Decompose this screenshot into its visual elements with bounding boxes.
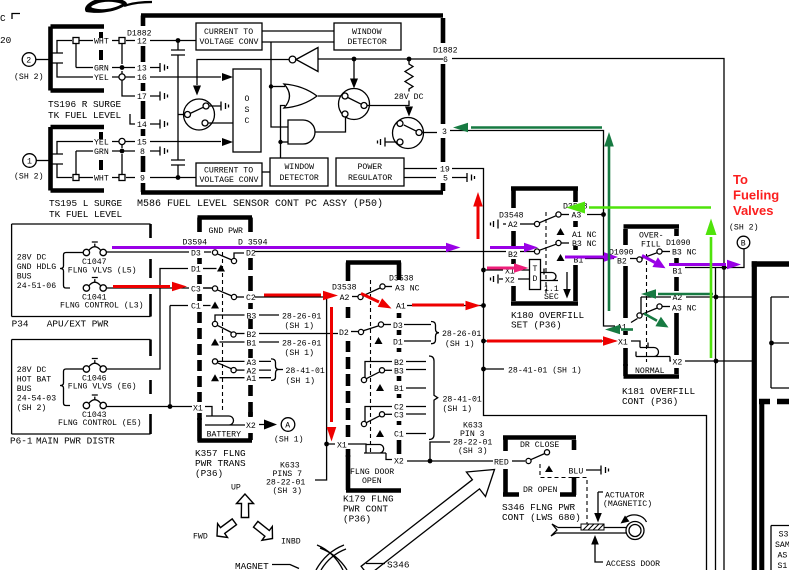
pin 14 with cap termination xyxy=(130,114,168,130)
svg-text:FLNG VLVS (L5): FLNG VLVS (L5) xyxy=(68,265,137,275)
red arrow K357 C2 out xyxy=(264,291,338,301)
vertical from conv1 out to OR gate xyxy=(271,42,288,127)
svg-text:OPEN: OPEN xyxy=(362,477,382,486)
svg-text:P6-1: P6-1 xyxy=(10,436,33,447)
lime arrow to K180 A3 xyxy=(566,202,711,214)
svg-text:B3 NC: B3 NC xyxy=(672,249,697,258)
svg-text:D1: D1 xyxy=(191,266,201,275)
OR gate xyxy=(284,84,317,108)
svg-text:OVER-: OVER- xyxy=(639,232,664,241)
svg-text:C3: C3 xyxy=(191,286,201,295)
red arrow K179 A1 out xyxy=(412,301,481,311)
svg-text:(SH 3): (SH 3) xyxy=(458,446,487,456)
relay K180 armature dashed line xyxy=(545,212,547,296)
dashed mechanical link S346 to actuator xyxy=(540,464,587,527)
red arrow K179 blade transfer xyxy=(361,294,392,309)
svg-text:A2: A2 xyxy=(340,294,350,303)
pin 5 with cap termination xyxy=(404,173,475,184)
svg-text:A3 NC: A3 NC xyxy=(395,285,420,294)
red arrow C1041 to K357 C3 xyxy=(113,282,187,292)
wire C1041 to K357 C3 xyxy=(106,287,211,289)
label S346 bottom xyxy=(366,560,410,570)
circuit breaker C1046 xyxy=(68,359,137,392)
red arrow up to pins 19/5 xyxy=(473,192,483,239)
svg-text:O: O xyxy=(245,95,250,104)
switch S346 FLNG PWR CONT box xyxy=(503,438,576,496)
svg-text:(SH 2): (SH 2) xyxy=(14,172,43,182)
svg-text:S: S xyxy=(245,106,250,115)
contact K180 A2/A3 xyxy=(491,212,582,231)
svg-text:NORMAL: NORMAL xyxy=(635,367,665,376)
svg-text:SET (P36): SET (P36) xyxy=(511,320,562,331)
svg-text:5: 5 xyxy=(443,175,448,184)
svg-text:17: 17 xyxy=(137,93,147,102)
svg-text:D: D xyxy=(533,275,538,284)
svg-text:(P36): (P36) xyxy=(343,514,371,525)
relay K180 OVERFILL SET box xyxy=(511,189,578,304)
svg-text:A2: A2 xyxy=(508,221,518,230)
svg-text:28V DC: 28V DC xyxy=(17,366,47,375)
svg-text:1: 1 xyxy=(27,158,32,167)
contact K181 A2/A3 xyxy=(637,304,697,318)
current to voltage conv box 1 xyxy=(196,23,262,50)
svg-text:12: 12 xyxy=(137,38,147,47)
svg-text:A3: A3 xyxy=(572,212,582,221)
relay K181 OVERFILL CONT box xyxy=(624,227,680,377)
contact K181 B3 NC xyxy=(657,249,697,258)
svg-text:TS196 R SURGE: TS196 R SURGE xyxy=(48,99,122,110)
contact K357 D3/D2 xyxy=(191,250,256,264)
svg-text:D3538: D3538 xyxy=(332,284,357,293)
svg-text:INBD: INBD xyxy=(281,538,301,547)
wire C1047 to K357 D3 xyxy=(106,251,211,253)
dark green arrow up pin3 net xyxy=(604,132,614,311)
svg-text:19: 19 xyxy=(440,166,450,175)
svg-text:(SH 1): (SH 1) xyxy=(443,404,472,414)
svg-text:C1: C1 xyxy=(191,303,201,312)
svg-text:TS195 L SURGE: TS195 L SURGE xyxy=(49,198,123,209)
svg-text:8: 8 xyxy=(140,148,145,157)
svg-text:3: 3 xyxy=(442,128,447,137)
svg-text:TK FUEL LEVEL: TK FUEL LEVEL xyxy=(49,209,123,220)
svg-text:B1: B1 xyxy=(247,340,257,349)
purple arrow K180 B1 to K181 B2 xyxy=(565,252,618,262)
connector TS196 R SURGE TK FUEL LEVEL xyxy=(14,27,122,122)
svg-text:To: To xyxy=(733,172,748,187)
svg-text:VOLTAGE CONV: VOLTAGE CONV xyxy=(200,176,259,185)
contact S346 BLU marker xyxy=(545,466,553,473)
svg-text:A1 NC: A1 NC xyxy=(572,231,597,240)
contact K181 B2 xyxy=(617,253,657,267)
connector D1882 body line TS196 side xyxy=(122,44,135,97)
svg-text:YEL: YEL xyxy=(94,139,109,148)
svg-text:B3: B3 xyxy=(247,312,257,321)
svg-text:C3: C3 xyxy=(394,412,404,421)
svg-text:A: A xyxy=(285,422,290,431)
svg-text:D3: D3 xyxy=(393,322,403,331)
circuit breaker C1043 xyxy=(58,395,142,428)
svg-text:DR CLOSE: DR CLOSE xyxy=(520,441,559,450)
svg-text:D1882: D1882 xyxy=(433,47,458,56)
orientation arrow UP xyxy=(231,484,254,518)
contact K180 B3 NC xyxy=(556,240,597,249)
svg-text:X2: X2 xyxy=(394,458,404,467)
circuit breaker C1041 xyxy=(60,278,144,311)
junction dots on power bus xyxy=(481,268,486,273)
svg-text:REGULATOR: REGULATOR xyxy=(348,174,392,183)
svg-text:P34: P34 xyxy=(12,319,29,330)
orientation arrow INBD xyxy=(254,521,301,546)
svg-text:RED: RED xyxy=(494,459,509,468)
relay K179 armature dashed line xyxy=(370,280,372,455)
svg-text:B1: B1 xyxy=(394,385,404,394)
time delay TD box K180 xyxy=(486,260,541,290)
svg-text:HOT BAT: HOT BAT xyxy=(17,376,51,385)
wire GRN to pin 8 xyxy=(76,147,168,158)
svg-text:GND HDLG: GND HDLG xyxy=(17,263,56,272)
pink arrow to K180 X1 xyxy=(487,263,529,273)
pointer ACTUATOR (MAGNETIC) xyxy=(594,492,652,523)
svg-text:CONT (P36): CONT (P36) xyxy=(622,396,678,407)
dark green arrow K181 A2 in xyxy=(641,289,713,299)
contact K180 B2 xyxy=(508,244,556,260)
wire K181 X2 row xyxy=(673,359,754,368)
junction pin6 net at B1 xyxy=(722,265,727,270)
label K633 PINS 7 xyxy=(266,444,327,496)
svg-text:FLNG DOOR: FLNG DOOR xyxy=(350,468,394,477)
svg-text:28V DC: 28V DC xyxy=(17,254,47,263)
wire inverter input from pin6 line xyxy=(318,58,443,60)
svg-text:AS: AS xyxy=(778,552,788,561)
wire YEL to pin 16 xyxy=(57,63,221,83)
contact K357 B1 xyxy=(211,339,321,359)
time delay arrow 1.1 SEC xyxy=(544,272,571,302)
svg-text:B3: B3 xyxy=(394,368,404,377)
svg-text:14: 14 xyxy=(137,121,147,130)
arrowhead into left switch xyxy=(193,86,201,96)
svg-text:9: 9 xyxy=(140,175,145,184)
label MAGNET xyxy=(235,561,299,570)
wire conv2 to window det2 xyxy=(262,171,270,173)
svg-text:15: 15 xyxy=(137,139,147,148)
wire K181 X1 from power bus xyxy=(484,339,628,348)
wire WHT to pin 12 xyxy=(57,38,196,54)
node bus capacitor chain left xyxy=(171,38,185,180)
relay K357 FLNG PWR TRANS box xyxy=(198,218,253,442)
svg-text:D2: D2 xyxy=(246,250,256,259)
svg-text:20: 20 xyxy=(0,35,12,46)
sheet ref circle 1 xyxy=(23,154,37,168)
wire YEL to pin 15 xyxy=(57,138,221,154)
svg-text:SAM: SAM xyxy=(775,541,789,550)
svg-text:(SH 1): (SH 1) xyxy=(445,339,474,349)
contact K179 C1 xyxy=(376,430,426,440)
relay K179 FLNG PWR CONT box xyxy=(346,263,401,491)
access door drawing xyxy=(551,515,647,540)
probe plates TS195 xyxy=(52,154,63,164)
wire K179 A1 to power bus xyxy=(396,303,484,312)
wire K357 C1 tie down to X1 xyxy=(169,306,171,407)
wire pin3 to K181 A1 xyxy=(450,131,615,327)
svg-text:CONT (LWS 680): CONT (LWS 680) xyxy=(502,512,581,523)
svg-text:28-41-01: 28-41-01 xyxy=(286,367,325,376)
contact K179 A2/A3 xyxy=(340,284,420,303)
pointer ACCESS DOOR xyxy=(591,535,660,569)
wire K357 C2 to K179 X1 xyxy=(255,297,327,444)
svg-text:FILL: FILL xyxy=(641,241,661,250)
current to voltage conv box 2 xyxy=(196,163,262,186)
left reed switch S-A xyxy=(178,99,233,130)
relay K357 armature dashed line xyxy=(222,252,224,412)
svg-text:X1: X1 xyxy=(193,405,203,414)
window detector box 1 xyxy=(334,23,401,50)
circuit breaker C1047 xyxy=(68,242,137,275)
svg-text:A3: A3 xyxy=(247,359,257,368)
svg-text:UP: UP xyxy=(231,484,241,493)
svg-text:A2: A2 xyxy=(673,294,683,303)
svg-text:D3: D3 xyxy=(191,250,201,259)
svg-text:GND PWR: GND PWR xyxy=(209,227,243,236)
svg-text:BLU: BLU xyxy=(569,468,584,477)
wire to sheet label 28-41-01 xyxy=(484,368,505,370)
svg-text:(SH 1): (SH 1) xyxy=(285,321,314,331)
contact K179 D2/D3 xyxy=(339,322,431,338)
svg-text:S1: S1 xyxy=(778,562,788,570)
svg-text:BUS: BUS xyxy=(17,385,32,394)
svg-text:(P36): (P36) xyxy=(195,468,223,479)
contact K357 A2 xyxy=(217,363,256,377)
red note To Fueling Valves xyxy=(733,172,779,218)
sheet ref circle 2 xyxy=(22,53,36,67)
wire K181 A2 row xyxy=(641,294,753,313)
right margin second heavy box partial xyxy=(759,399,789,570)
relay coil K179 xyxy=(329,441,392,459)
svg-text:16: 16 xyxy=(137,74,147,83)
contact K357 A3 xyxy=(212,359,256,368)
red arrow down to K179 X1 xyxy=(327,307,337,442)
wire K181 B1 to sheet B xyxy=(673,223,759,277)
svg-text:S3: S3 xyxy=(779,531,789,540)
svg-text:28-26-01: 28-26-01 xyxy=(442,330,481,339)
svg-text:D2: D2 xyxy=(339,329,349,338)
svg-text:FLNG CONTROL (L3): FLNG CONTROL (L3) xyxy=(60,301,144,311)
svg-text:A1: A1 xyxy=(396,303,406,312)
OSC box xyxy=(233,69,261,152)
svg-text:T: T xyxy=(533,265,538,274)
coil K180 xyxy=(541,269,559,281)
probe plates TS196 xyxy=(52,53,63,63)
big outline pointer arrow to S346 xyxy=(361,470,494,570)
power regulator box xyxy=(336,158,404,186)
contact K179 C2/C3 xyxy=(361,404,426,427)
lime arrow up from K181 X2 xyxy=(706,219,717,359)
svg-text:A3 NC: A3 NC xyxy=(672,305,697,314)
svg-text:CURRENT TO: CURRENT TO xyxy=(204,167,253,176)
svg-text:2: 2 xyxy=(26,57,31,66)
contact S346 RED/DR CLOSE xyxy=(494,450,550,468)
wire WHT to pin 9 xyxy=(57,164,196,184)
contact K180 B1 xyxy=(557,254,584,266)
svg-text:X2: X2 xyxy=(505,277,515,286)
label K633 PIN 3 xyxy=(430,422,492,461)
svg-text:FLNG CONTROL (E5): FLNG CONTROL (E5) xyxy=(58,418,142,428)
svg-text:13: 13 xyxy=(137,65,147,74)
AND gate xyxy=(288,120,315,144)
svg-text:6: 6 xyxy=(443,56,448,65)
contact K357 B3 xyxy=(212,312,321,331)
contact K179 B2/B3 xyxy=(361,359,426,383)
svg-text:SEC: SEC xyxy=(544,293,559,302)
svg-text:WHT: WHT xyxy=(94,175,109,184)
wire pin6 long run right and down xyxy=(452,59,724,570)
wire pin19 to power bus vertical xyxy=(452,169,707,570)
relay coil K357 xyxy=(193,405,243,425)
svg-text:VOLTAGE CONV: VOLTAGE CONV xyxy=(200,38,259,47)
pin 17 with cap termination xyxy=(137,92,168,103)
svg-text:CURRENT TO: CURRENT TO xyxy=(204,28,253,37)
contact K357 B2 xyxy=(217,325,338,340)
wire BLU with cap termination xyxy=(569,466,609,477)
svg-text:28-41-01 (SH 1): 28-41-01 (SH 1) xyxy=(508,366,582,376)
pin K179 X2 wire to S346 xyxy=(394,458,493,467)
arrowhead pin15 into OSC xyxy=(222,138,233,146)
contact K181 A1 xyxy=(617,319,638,333)
brace K179 D group xyxy=(431,322,481,350)
svg-text:C2: C2 xyxy=(246,294,256,303)
wire C1043 to K357 X1 xyxy=(106,406,192,408)
svg-text:GRN: GRN xyxy=(94,65,109,74)
contact K179 B1 xyxy=(376,384,426,394)
purple arrow K181 blade transfer xyxy=(642,256,666,269)
contact K357 D1 xyxy=(191,265,225,275)
svg-text:GRN: GRN xyxy=(94,148,109,157)
svg-text:WHT: WHT xyxy=(94,38,109,47)
svg-text:S346: S346 xyxy=(387,560,410,570)
dark green arrow K181 blade transfer xyxy=(644,314,669,328)
svg-text:TK FUEL LEVEL: TK FUEL LEVEL xyxy=(48,110,122,121)
bus bracket P34 xyxy=(60,253,70,289)
svg-text:DR OPEN: DR OPEN xyxy=(523,486,557,495)
svg-text:(SH 2): (SH 2) xyxy=(729,223,758,233)
relay K181 armature dashed line xyxy=(646,254,648,362)
svg-text:D3538: D3538 xyxy=(389,275,414,284)
wire inverter output to left switch xyxy=(197,60,289,86)
svg-text:C: C xyxy=(0,13,6,24)
svg-text:24-51-06: 24-51-06 xyxy=(17,282,56,291)
svg-text:(MAGNETIC): (MAGNETIC) xyxy=(603,499,652,509)
svg-text:D1090: D1090 xyxy=(666,239,691,248)
svg-text:MAGNET: MAGNET xyxy=(235,561,269,570)
panel P34 APU/EXT PWR box xyxy=(12,224,151,317)
wire shield TS195 xyxy=(75,151,77,178)
relay coil K181 xyxy=(631,341,671,361)
brace K357 A group xyxy=(259,359,325,386)
svg-text:24-54-03: 24-54-03 xyxy=(17,395,56,404)
svg-text:B1: B1 xyxy=(673,268,683,277)
svg-text:D1882: D1882 xyxy=(127,30,152,39)
stray cut-off curve top edge xyxy=(85,0,152,13)
svg-text:B2: B2 xyxy=(617,258,627,267)
purple arrow C1047 to K180 B2 part1 xyxy=(112,243,461,253)
wire K180 A3 to pin3 net xyxy=(587,214,604,216)
svg-text:(SH 1): (SH 1) xyxy=(286,376,315,386)
wire shield TS196 xyxy=(75,44,77,68)
svg-text:FLNG VLVS (E6): FLNG VLVS (E6) xyxy=(68,382,137,392)
svg-text:(SH 1): (SH 1) xyxy=(285,348,314,358)
svg-text:POWER: POWER xyxy=(358,163,383,172)
svg-text:(SH 1): (SH 1) xyxy=(274,435,303,445)
svg-text:B2: B2 xyxy=(508,251,518,260)
resistor R1 xyxy=(394,57,424,117)
svg-text:FWD: FWD xyxy=(193,533,208,542)
purple arrow into K180 B2 part2 xyxy=(490,243,538,253)
svg-text:Valves: Valves xyxy=(733,203,774,218)
connector D1882 body line TS195 side xyxy=(121,145,123,175)
svg-text:DETECTOR: DETECTOR xyxy=(280,174,319,183)
svg-text:D3548: D3548 xyxy=(499,212,524,221)
contact K180 A1 NC xyxy=(557,228,597,240)
bus bracket P6-1 xyxy=(60,369,70,406)
svg-text:A1: A1 xyxy=(247,375,257,384)
svg-text:28-26-01: 28-26-01 xyxy=(282,339,321,348)
svg-text:BUS: BUS xyxy=(17,273,32,282)
brace K179 B/C group xyxy=(429,356,482,440)
cut-off corner tick xyxy=(12,14,20,20)
magnet wire bundle xyxy=(316,545,347,570)
svg-text:APU/EXT PWR: APU/EXT PWR xyxy=(47,319,109,330)
svg-text:28V DC: 28V DC xyxy=(394,93,424,102)
svg-text:ACCESS DOOR: ACCESS DOOR xyxy=(606,560,660,569)
orientation arrow FWD xyxy=(193,519,237,542)
red arrow to K181 X1 xyxy=(487,336,618,346)
vertical from window det2 to gates xyxy=(281,106,286,159)
contact K179 D1 xyxy=(375,337,432,347)
pin 19 xyxy=(404,166,450,175)
svg-text:M586 FUEL LEVEL SENSOR CONT P: M586 FUEL LEVEL SENSOR CONT PC ASSY (P50… xyxy=(137,198,383,210)
contact K357 C3/C2 xyxy=(191,286,256,304)
svg-text:WINDOW: WINDOW xyxy=(285,163,315,172)
svg-text:(SH 2): (SH 2) xyxy=(17,403,46,413)
window detector box 2 xyxy=(270,158,328,186)
svg-text:DETECTOR: DETECTOR xyxy=(348,38,387,47)
mid reed switch S-B xyxy=(339,57,410,120)
svg-text:(SH 3): (SH 3) xyxy=(273,486,302,496)
svg-text:(SH 2): (SH 2) xyxy=(14,72,43,82)
purple arrow K181 B1 out xyxy=(669,260,741,270)
contact K357 A1 xyxy=(211,374,256,384)
wire OR output to mid switch xyxy=(318,95,342,97)
svg-text:28-41-01: 28-41-01 xyxy=(443,396,482,405)
svg-text:X1: X1 xyxy=(618,339,628,348)
svg-text:MAIN PWR DISTR: MAIN PWR DISTR xyxy=(36,436,115,447)
right margin relay box partial xyxy=(752,261,789,570)
connector TS195 L SURGE TK FUEL LEVEL xyxy=(14,127,123,220)
wire vertical net at 716 xyxy=(715,268,717,570)
contact K357 C1 xyxy=(170,302,219,312)
svg-text:28-26-01: 28-26-01 xyxy=(282,312,321,321)
wire K357 D2 to K180 B2 xyxy=(255,251,534,253)
wire AND output to mid switch xyxy=(315,118,346,133)
svg-text:X2: X2 xyxy=(673,359,683,368)
inverter U1 xyxy=(289,48,318,72)
right reed switch S-C xyxy=(378,118,438,149)
svg-text:BATTERY: BATTERY xyxy=(207,431,241,440)
pin K357 X2 to sheet A xyxy=(243,418,303,445)
svg-text:D1: D1 xyxy=(393,338,403,347)
dark green arrow K181 A1 out xyxy=(605,325,633,335)
panel P6-1 MAIN PWR DISTR box xyxy=(12,340,151,435)
wire K180 B1 to K181 B2 xyxy=(585,258,637,260)
